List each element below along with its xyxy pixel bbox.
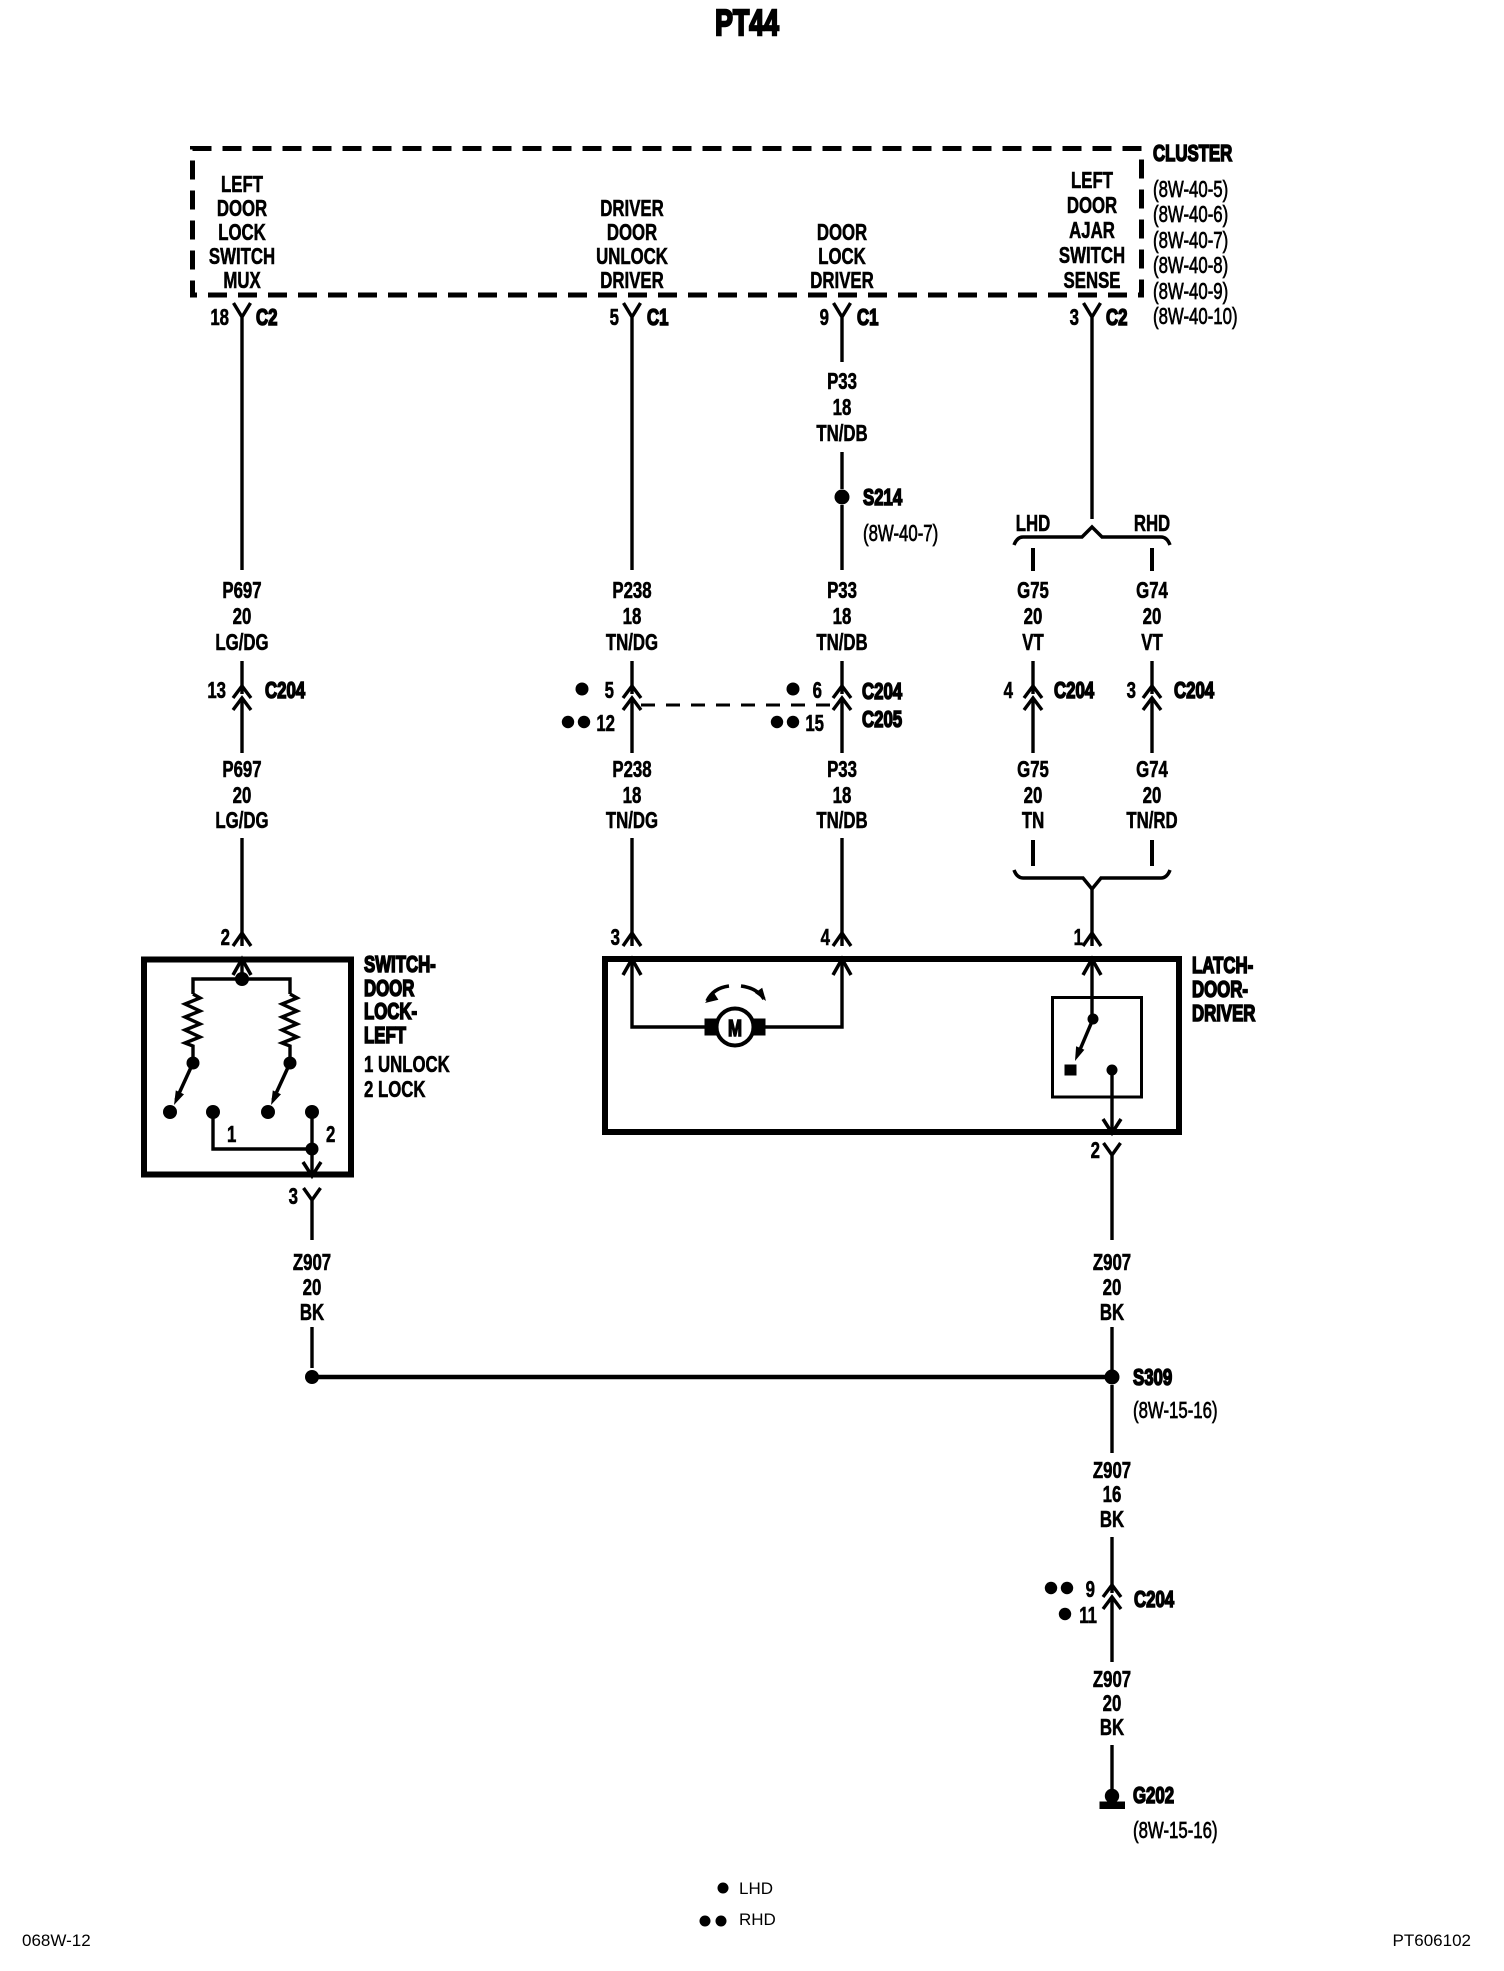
arrow into latch pin 3 [623, 959, 641, 975]
wire P697 middle [240, 698, 243, 753]
svg-text:LOCK: LOCK [818, 245, 866, 270]
wire P33 lower [840, 838, 843, 946]
connector C204 pin 5 / C205 pin 12 [562, 679, 641, 737]
label G75 20 VT [1017, 579, 1049, 656]
box name SWITCH-DOOR LOCK-LEFT [364, 953, 436, 1049]
svg-text:13: 13 [207, 679, 226, 704]
wire Z907 to junction [310, 1327, 313, 1368]
svg-text:DOOR: DOOR [364, 977, 415, 1002]
svg-text:VT: VT [1022, 631, 1044, 656]
svg-text:20: 20 [1024, 784, 1043, 809]
svg-text:20: 20 [1143, 784, 1162, 809]
label Z907 20 BK left [293, 1251, 331, 1326]
label P697 20 LG/DG upper [215, 579, 268, 656]
wire P33 below splice [840, 505, 843, 570]
connector C204 pin 3 [1127, 679, 1215, 710]
label Z907 16 BK [1093, 1459, 1131, 1533]
svg-text:5: 5 [610, 306, 619, 331]
svg-text:12: 12 [596, 712, 615, 737]
wire Z907 to ground [1110, 1745, 1113, 1790]
wire P238 middle [630, 698, 633, 753]
svg-text:18: 18 [623, 605, 642, 630]
svg-text:TN/DG: TN/DG [606, 631, 658, 656]
cluster label DOOR LOCK DRIVER [810, 221, 874, 294]
svg-text:BK: BK [1100, 1301, 1125, 1326]
label G74 20 TN/RD [1126, 758, 1177, 834]
svg-text:PT606102: PT606102 [1393, 1931, 1471, 1950]
svg-text:20: 20 [1103, 1276, 1122, 1301]
ground bus wire [312, 1375, 1112, 1380]
latch switch common dot [1088, 1014, 1099, 1025]
svg-text:Z907: Z907 [293, 1251, 331, 1276]
svg-text:16: 16 [1103, 1483, 1122, 1508]
wire stub above C204 pin 6 [840, 661, 843, 694]
svg-text:9: 9 [820, 306, 829, 331]
svg-text:DOOR: DOOR [607, 221, 658, 246]
svg-text:CLUSTER: CLUSTER [1153, 142, 1233, 167]
svg-text:P33: P33 [827, 579, 857, 604]
svg-text:2: 2 [221, 926, 230, 951]
svg-text:Z907: Z907 [1093, 1668, 1131, 1693]
LHD stub upper [1031, 548, 1035, 571]
wire Z907 below C204 [1110, 1597, 1113, 1662]
latch-door-driver box [605, 959, 1179, 1132]
internal bus wire [193, 979, 290, 994]
svg-text:DRIVER: DRIVER [600, 197, 664, 222]
wire pin 1 to latch switch [1090, 959, 1093, 1019]
svg-text:C204: C204 [1054, 679, 1095, 704]
svg-text:Z907: Z907 [1093, 1459, 1131, 1484]
connector C204 pin 13 [207, 679, 305, 710]
wire P33 upper [840, 331, 843, 362]
pin 1 into latch [1074, 926, 1101, 951]
cluster dashed box [193, 149, 1142, 296]
svg-text:3: 3 [1070, 306, 1079, 331]
motor left wire [632, 959, 706, 1027]
svg-text:TN/RD: TN/RD [1126, 809, 1177, 834]
ground G202 [1100, 1784, 1174, 1809]
svg-text:P238: P238 [612, 579, 651, 604]
svg-text:S214: S214 [863, 486, 903, 511]
junction node switch top [235, 972, 249, 986]
splice S214 [835, 486, 903, 511]
svg-text:VT: VT [1141, 631, 1163, 656]
svg-text:LEFT: LEFT [221, 173, 264, 198]
latch switch throw contact [1065, 1065, 1076, 1075]
svg-text:BK: BK [300, 1301, 325, 1326]
box name LATCH-DOOR-DRIVER [1192, 954, 1256, 1027]
svg-text:P697: P697 [222, 579, 261, 604]
cluster label LEFT DOOR AJAR SWITCH SENSE [1059, 169, 1125, 294]
svg-text:SWITCH: SWITCH [209, 245, 275, 270]
contact dot left throw [163, 1105, 177, 1119]
wire latch output with arrow [1103, 1070, 1121, 1134]
resistor right [282, 994, 297, 1058]
pin 4 into latch motor [821, 926, 851, 951]
svg-text:LEFT: LEFT [1071, 169, 1114, 194]
svg-text:Z907: Z907 [1093, 1251, 1131, 1276]
svg-text:SWITCH-: SWITCH- [364, 953, 436, 978]
label G74 20 VT [1136, 579, 1168, 656]
svg-text:C2: C2 [1106, 306, 1127, 331]
pin 5 C1 [610, 303, 669, 331]
svg-text:MUX: MUX [223, 269, 261, 294]
wire to pin 3 with arrow [303, 1149, 321, 1176]
svg-text:2: 2 [1091, 1139, 1100, 1164]
svg-text:LG/DG: LG/DG [215, 809, 268, 834]
resistor left [185, 994, 200, 1058]
svg-text:DRIVER: DRIVER [1192, 1002, 1256, 1027]
pin 2 into switch [221, 926, 251, 951]
motor M1 [705, 1009, 765, 1046]
dashed link between C204 and C205 [641, 704, 834, 707]
svg-text:M: M [728, 1017, 742, 1042]
wire stub above C204 pin 13 [240, 661, 243, 694]
contact legend 1 UNLOCK 2 LOCK [364, 1053, 450, 1103]
merge brace [1014, 870, 1170, 889]
arrow into latch pin 4 [833, 959, 851, 975]
pin 3 below switch box [289, 1185, 321, 1210]
switch arm left [174, 1063, 193, 1105]
svg-text:TN/DB: TN/DB [816, 809, 867, 834]
svg-text:G75: G75 [1017, 579, 1049, 604]
contact dot right throw [261, 1105, 275, 1119]
svg-text:TN/DB: TN/DB [816, 631, 867, 656]
svg-text:18: 18 [833, 396, 852, 421]
svg-text:P33: P33 [827, 370, 857, 395]
wire P33 to splice [840, 452, 843, 489]
svg-text:DOOR: DOOR [817, 221, 868, 246]
wire P33 middle [840, 698, 843, 753]
svg-text:20: 20 [233, 605, 252, 630]
svg-text:C205: C205 [862, 708, 902, 733]
svg-text:4: 4 [821, 926, 831, 951]
RHD stub lower [1150, 840, 1154, 866]
svg-text:(8W-40-6): (8W-40-6) [1153, 203, 1228, 228]
svg-text:1: 1 [227, 1123, 236, 1148]
arrow into latch pin 1 [1083, 959, 1101, 975]
switch arm right [271, 1063, 290, 1105]
wire P238 lower [630, 838, 633, 946]
svg-text:4: 4 [1004, 679, 1014, 704]
svg-text:C1: C1 [857, 306, 878, 331]
resistor left lower contact [187, 1057, 200, 1070]
svg-text:DRIVER: DRIVER [600, 269, 664, 294]
svg-text:9: 9 [1086, 1578, 1095, 1603]
latch switch arm [1075, 1019, 1093, 1061]
rotation arrow right [741, 986, 766, 1001]
wire Z907 from switch pin 3 [310, 1208, 313, 1240]
wire contact 2 to output [310, 1112, 313, 1149]
wire P697 upper [240, 331, 243, 570]
svg-text:3: 3 [1127, 679, 1136, 704]
svg-text:2 LOCK: 2 LOCK [364, 1078, 426, 1103]
svg-text:TN/DB: TN/DB [816, 422, 867, 447]
motor right wire [764, 959, 842, 1027]
label P697 20 LG/DG lower [215, 758, 268, 834]
pin 3 C2 [1070, 303, 1128, 331]
wire contact 1 to output [213, 1112, 312, 1149]
switch-door-lock-left box [144, 960, 351, 1175]
wire stub above C204 pin 4 [1031, 661, 1034, 694]
label P33 18 TN/DB middle [816, 579, 867, 656]
LHD stub lower [1031, 840, 1035, 866]
svg-text:G74: G74 [1136, 579, 1168, 604]
svg-text:3: 3 [289, 1185, 298, 1210]
svg-text:20: 20 [233, 784, 252, 809]
svg-text:C204: C204 [265, 679, 306, 704]
svg-text:LOCK-: LOCK- [364, 1000, 417, 1025]
svg-text:AJAR: AJAR [1069, 219, 1115, 244]
svg-text:3: 3 [611, 926, 620, 951]
svg-text:(8W-40-9): (8W-40-9) [1153, 280, 1228, 305]
wire into latch pin 1 [1090, 889, 1093, 946]
pin 9 C1 [820, 303, 879, 331]
svg-text:068W-12: 068W-12 [22, 1931, 91, 1950]
rotation arrow left [705, 986, 729, 1003]
wire P697 lower [240, 838, 243, 946]
wire P238 upper [630, 331, 633, 570]
svg-text:2: 2 [326, 1123, 335, 1148]
svg-text:18: 18 [623, 784, 642, 809]
junction node switch output [306, 1143, 319, 1156]
wire Z907 from latch pin 2 [1110, 1174, 1113, 1240]
svg-text:G75: G75 [1017, 758, 1049, 783]
label P238 18 TN/DG upper [606, 579, 658, 656]
svg-text:BK: BK [1100, 1716, 1125, 1741]
legend RHD [700, 1910, 776, 1929]
junction dot left [305, 1370, 319, 1384]
svg-text:SWITCH: SWITCH [1059, 244, 1125, 269]
svg-text:LHD: LHD [1016, 512, 1051, 537]
svg-text:TN: TN [1022, 809, 1044, 834]
wire stub above C204 pin 3 [1150, 661, 1153, 694]
pin 18 C2 [210, 303, 277, 331]
svg-text:15: 15 [805, 712, 824, 737]
wire Z907 to splice S309 [1110, 1327, 1113, 1370]
svg-text:1: 1 [1074, 926, 1083, 951]
label Z907 20 BK bottom [1093, 1668, 1131, 1741]
connector C204 pin 4 [1004, 679, 1095, 710]
cluster sheet references 8W-40 [1153, 178, 1238, 330]
svg-text:DOOR-: DOOR- [1192, 978, 1248, 1003]
svg-text:C204: C204 [1134, 1588, 1175, 1613]
wire Z907 to C204 [1110, 1537, 1113, 1593]
svg-text:DRIVER: DRIVER [810, 269, 874, 294]
svg-text:G202: G202 [1133, 1784, 1174, 1809]
svg-text:20: 20 [1024, 605, 1043, 630]
split brace LHD/RHD [1014, 527, 1170, 545]
svg-text:20: 20 [1103, 1692, 1122, 1717]
svg-text:C204: C204 [862, 680, 903, 705]
cluster label LEFT DOOR LOCK SWITCH MUX [209, 173, 275, 294]
wire left door ajar sense [1090, 331, 1093, 519]
svg-text:DOOR: DOOR [1067, 194, 1118, 219]
svg-text:RHD: RHD [1134, 512, 1170, 537]
svg-text:TN/DG: TN/DG [606, 809, 658, 834]
svg-text:1 UNLOCK: 1 UNLOCK [364, 1053, 450, 1078]
svg-text:18: 18 [833, 784, 852, 809]
cluster label DRIVER DOOR UNLOCK DRIVER [596, 197, 668, 294]
pin 2 below latch box [1091, 1139, 1121, 1174]
contact 2 dot [305, 1105, 319, 1119]
svg-text:(8W-15-16): (8W-15-16) [1133, 1399, 1218, 1424]
label G75 20 TN [1017, 758, 1049, 834]
label Z907 20 BK right [1093, 1251, 1131, 1326]
svg-text:C2: C2 [256, 306, 277, 331]
svg-text:C1: C1 [647, 306, 668, 331]
connector C204 pins 9 and 11 [1045, 1578, 1175, 1629]
resistor right lower contact [284, 1057, 297, 1070]
svg-text:RHD: RHD [739, 1910, 776, 1929]
svg-text:C204: C204 [1174, 679, 1215, 704]
wire stub above C204 pin 5 [630, 661, 633, 694]
wire G75 below connector [1031, 698, 1034, 753]
svg-text:5: 5 [605, 679, 614, 704]
latch switch output dot [1107, 1065, 1118, 1076]
svg-text:PT44: PT44 [715, 2, 779, 43]
svg-text:P238: P238 [612, 758, 651, 783]
svg-text:P697: P697 [222, 758, 261, 783]
connector C204 pin 6 / C205 pin 15 [771, 679, 903, 737]
svg-text:UNLOCK: UNLOCK [596, 245, 668, 270]
arrow into switch from pin 2 [233, 959, 251, 975]
svg-text:LOCK: LOCK [218, 221, 266, 246]
pin 3 into latch motor [611, 926, 641, 951]
svg-text:BK: BK [1100, 1508, 1125, 1533]
svg-text:LATCH-: LATCH- [1192, 954, 1253, 979]
svg-text:S309: S309 [1133, 1366, 1172, 1391]
svg-text:(8W-40-8): (8W-40-8) [1153, 254, 1228, 279]
label P33 18 TN/DB upper [816, 370, 867, 447]
contact 1 dot [206, 1105, 220, 1119]
svg-text:(8W-15-16): (8W-15-16) [1133, 1819, 1218, 1844]
latch switch sub-box [1053, 998, 1142, 1098]
svg-text:SENSE: SENSE [1064, 269, 1121, 294]
wire G74 below connector [1150, 698, 1153, 753]
svg-text:DOOR: DOOR [217, 197, 268, 222]
svg-text:11: 11 [1079, 1604, 1097, 1629]
legend LHD [718, 1879, 774, 1898]
svg-text:G74: G74 [1136, 758, 1168, 783]
wire Z907 below S309 [1110, 1385, 1113, 1453]
svg-text:LHD: LHD [739, 1879, 773, 1898]
splice S309 [1105, 1366, 1173, 1391]
svg-text:20: 20 [303, 1276, 322, 1301]
svg-text:(8W-40-10): (8W-40-10) [1153, 305, 1238, 330]
svg-text:P33: P33 [827, 758, 857, 783]
label P33 18 TN/DB lower [816, 758, 867, 834]
svg-text:18: 18 [210, 306, 229, 331]
RHD stub upper [1150, 548, 1154, 571]
svg-text:6: 6 [813, 679, 822, 704]
svg-text:(8W-40-7): (8W-40-7) [863, 522, 938, 547]
svg-text:(8W-40-7): (8W-40-7) [1153, 229, 1228, 254]
svg-text:20: 20 [1143, 605, 1162, 630]
svg-text:LEFT: LEFT [364, 1024, 407, 1049]
label P238 18 TN/DG lower [606, 758, 658, 834]
svg-text:(8W-40-5): (8W-40-5) [1153, 178, 1228, 203]
svg-text:18: 18 [833, 605, 852, 630]
svg-text:LG/DG: LG/DG [215, 631, 268, 656]
